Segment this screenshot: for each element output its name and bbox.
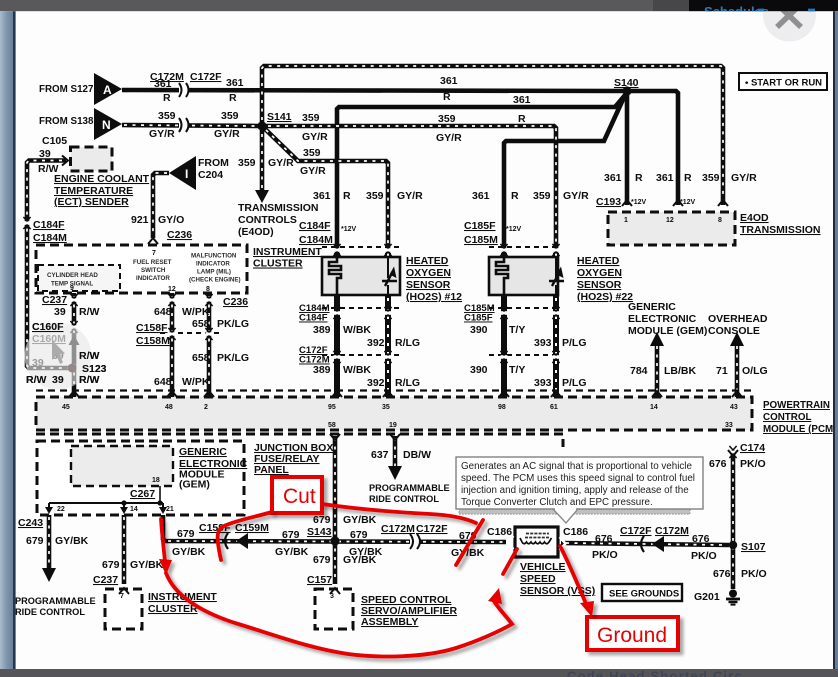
svg-text:7: 7 <box>152 250 156 257</box>
svg-text:GY/BK: GY/BK <box>343 554 377 566</box>
svg-text:393: 393 <box>534 337 552 349</box>
svg-text:(GEM): (GEM) <box>179 479 210 491</box>
svg-text:58: 58 <box>328 422 336 429</box>
svg-text:SENSOR: SENSOR <box>406 279 451 291</box>
svg-text:C185F: C185F <box>464 220 496 232</box>
svg-text:MODULE (GEM): MODULE (GEM) <box>628 325 707 337</box>
svg-text:C184M: C184M <box>33 232 67 244</box>
svg-text:C237: C237 <box>93 574 118 586</box>
svg-text:8: 8 <box>718 217 722 224</box>
svg-text:43: 43 <box>730 404 738 411</box>
svg-text:R: R <box>518 113 526 125</box>
svg-text:TEMP SIGNAL: TEMP SIGNAL <box>51 281 93 288</box>
svg-text:12: 12 <box>666 217 674 224</box>
svg-text:P/LG: P/LG <box>562 337 587 349</box>
svg-text:C184F: C184F <box>299 313 328 324</box>
svg-text:14: 14 <box>650 404 658 411</box>
svg-text:39: 39 <box>54 306 66 318</box>
svg-text:C174: C174 <box>740 442 765 454</box>
svg-text:P/LG: P/LG <box>562 377 587 389</box>
svg-text:GY/BK: GY/BK <box>343 514 377 526</box>
svg-text:637: 637 <box>371 449 389 461</box>
svg-text:LAMP (MIL): LAMP (MIL) <box>197 269 231 276</box>
svg-text:R/W: R/W <box>79 306 100 318</box>
svg-text:35: 35 <box>382 404 390 411</box>
svg-text:359: 359 <box>366 190 384 202</box>
svg-text:T/Y: T/Y <box>509 364 525 376</box>
svg-text:C172F: C172F <box>190 71 222 83</box>
svg-text:C184M: C184M <box>299 234 333 246</box>
svg-text:W/BK: W/BK <box>343 364 371 376</box>
svg-text:GY/BK: GY/BK <box>130 559 164 571</box>
svg-text:PK/O: PK/O <box>691 550 717 562</box>
svg-text:CONTROL: CONTROL <box>763 412 811 423</box>
svg-text:359: 359 <box>702 172 720 184</box>
svg-text:C105: C105 <box>42 135 67 147</box>
svg-text:S140: S140 <box>614 77 639 89</box>
svg-text:N: N <box>102 118 111 132</box>
svg-text:C160F: C160F <box>32 321 64 333</box>
svg-text:95: 95 <box>328 404 336 411</box>
svg-text:359: 359 <box>438 113 456 125</box>
svg-text:(HO2S) #12: (HO2S) #12 <box>406 291 462 303</box>
svg-text:R: R <box>163 92 171 104</box>
svg-text:C185F: C185F <box>464 313 493 324</box>
svg-text:C158F: C158F <box>136 322 168 334</box>
svg-text:R: R <box>511 190 519 202</box>
svg-text:C172M: C172M <box>655 525 689 537</box>
svg-text:C184F: C184F <box>299 220 331 232</box>
svg-text:GY/BK: GY/BK <box>55 535 89 547</box>
svg-text:FUEL RESET: FUEL RESET <box>133 259 172 266</box>
svg-text:GY/R: GY/R <box>302 131 328 143</box>
svg-text:PANEL: PANEL <box>254 464 289 476</box>
svg-text:CLUSTER: CLUSTER <box>148 603 198 615</box>
svg-text:393: 393 <box>534 377 552 389</box>
svg-text:389: 389 <box>313 364 331 376</box>
svg-text:• START OR RUN: • START OR RUN <box>745 78 822 89</box>
svg-text:GY/R: GY/R <box>149 128 175 140</box>
svg-text:392: 392 <box>367 377 385 389</box>
svg-text:359: 359 <box>238 157 256 169</box>
svg-text:R/W: R/W <box>79 374 100 386</box>
svg-text:R/W: R/W <box>26 374 47 386</box>
svg-text:18: 18 <box>152 477 160 484</box>
svg-text:921: 921 <box>131 214 149 226</box>
svg-text:C267: C267 <box>130 488 155 500</box>
svg-text:R: R <box>684 172 692 184</box>
svg-text:C186: C186 <box>487 526 512 538</box>
svg-text:T/Y: T/Y <box>509 324 525 336</box>
svg-text:DB/W: DB/W <box>403 449 431 461</box>
svg-text:HEATED: HEATED <box>406 255 449 267</box>
svg-text:GY/R: GY/R <box>731 172 757 184</box>
svg-text:C243: C243 <box>18 517 43 529</box>
svg-text:C172M: C172M <box>150 71 184 83</box>
svg-text:PK/O: PK/O <box>592 549 618 561</box>
svg-text:679: 679 <box>313 514 331 526</box>
svg-text:359: 359 <box>221 110 239 122</box>
svg-text:R: R <box>343 190 351 202</box>
svg-text:(HO2S) #22: (HO2S) #22 <box>577 291 633 303</box>
svg-text:C159M: C159M <box>235 522 269 534</box>
svg-text:676: 676 <box>692 533 710 545</box>
svg-text:FROM S138: FROM S138 <box>39 116 94 127</box>
svg-text:Code Head Shorted Circ: Code Head Shorted Circ <box>567 669 743 677</box>
svg-text:676: 676 <box>595 533 613 545</box>
svg-text:FROM: FROM <box>198 157 229 169</box>
svg-text:C237: C237 <box>42 294 67 306</box>
svg-text:MODULE (PCM): MODULE (PCM) <box>763 424 836 435</box>
svg-text:361: 361 <box>440 75 458 87</box>
svg-text:C184F: C184F <box>33 219 65 231</box>
svg-text:CONSOLE: CONSOLE <box>708 325 760 337</box>
svg-text:676: 676 <box>713 568 731 580</box>
svg-text:8: 8 <box>206 286 210 293</box>
svg-text:S141: S141 <box>267 111 292 123</box>
svg-text:RIDE CONTROL: RIDE CONTROL <box>15 607 85 617</box>
svg-text:GY/R: GY/R <box>563 190 589 202</box>
svg-text:TRANSMISSION: TRANSMISSION <box>740 224 821 236</box>
svg-text:GENERIC: GENERIC <box>179 446 227 458</box>
svg-text:GENERIC: GENERIC <box>628 301 676 313</box>
svg-text:3: 3 <box>330 593 334 600</box>
svg-text:CYLINDER HEAD: CYLINDER HEAD <box>47 272 98 279</box>
svg-text:33: 33 <box>725 422 733 429</box>
svg-text:A: A <box>103 83 112 97</box>
svg-text:R/LG: R/LG <box>395 377 420 389</box>
svg-text:R: R <box>443 91 451 103</box>
svg-text:679: 679 <box>282 529 300 541</box>
svg-text:C236: C236 <box>223 296 248 308</box>
svg-text:GY/BK: GY/BK <box>172 546 206 558</box>
svg-text:*12V: *12V <box>506 226 522 233</box>
svg-text:PK/LG: PK/LG <box>217 318 249 330</box>
svg-text:PROGRAMMABLE: PROGRAMMABLE <box>15 596 96 606</box>
svg-text:I: I <box>185 167 188 181</box>
svg-text:INDICATOR: INDICATOR <box>196 261 230 268</box>
svg-text:22: 22 <box>57 506 65 513</box>
svg-text:W/PK: W/PK <box>182 306 210 318</box>
svg-text:C185M: C185M <box>464 234 498 246</box>
svg-text:679: 679 <box>177 528 195 540</box>
svg-text:784: 784 <box>630 365 648 377</box>
svg-text:*12V: *12V <box>341 226 357 233</box>
svg-text:679: 679 <box>102 559 120 571</box>
svg-text:1: 1 <box>624 217 628 224</box>
svg-text:SWITCH: SWITCH <box>141 267 166 274</box>
svg-text:C204: C204 <box>198 169 223 181</box>
svg-text:HEATED: HEATED <box>577 255 620 267</box>
svg-text:GY/R: GY/R <box>268 157 294 169</box>
svg-text:W/BK: W/BK <box>343 324 371 336</box>
svg-text:679: 679 <box>26 535 44 547</box>
svg-text:POWERTRAIN: POWERTRAIN <box>763 400 830 411</box>
svg-text:Ground: Ground <box>597 624 667 647</box>
svg-text:389: 389 <box>313 324 331 336</box>
svg-text:SPEED: SPEED <box>520 573 556 585</box>
svg-text:2: 2 <box>204 404 208 411</box>
svg-text:679: 679 <box>350 529 368 541</box>
svg-text:361: 361 <box>513 94 531 106</box>
svg-text:359: 359 <box>303 147 321 159</box>
svg-text:(E4OD): (E4OD) <box>238 226 274 238</box>
svg-text:12: 12 <box>168 286 176 293</box>
svg-text:648: 648 <box>154 376 172 388</box>
svg-text:speed. The PCM uses this speed: speed. The PCM uses this speed signal to… <box>461 473 695 484</box>
svg-text:E4OD: E4OD <box>740 212 769 224</box>
svg-text:Generates an AC signal that is: Generates an AC signal that is proportio… <box>461 461 692 472</box>
svg-text:CLUSTER: CLUSTER <box>253 258 303 270</box>
svg-text:361: 361 <box>313 190 331 202</box>
svg-text:658: 658 <box>192 318 210 330</box>
svg-text:VEHICLE: VEHICLE <box>520 561 566 573</box>
svg-text:SENSOR: SENSOR <box>577 279 622 291</box>
svg-text:G201: G201 <box>694 591 720 603</box>
svg-text:S143: S143 <box>307 526 332 538</box>
svg-text:39: 39 <box>32 357 44 369</box>
svg-text:48: 48 <box>165 404 173 411</box>
svg-text:Torque Converter Clutch and EP: Torque Converter Clutch and EPC pressure… <box>461 497 653 508</box>
svg-text:390: 390 <box>470 364 488 376</box>
svg-text:LB/BK: LB/BK <box>664 365 696 377</box>
svg-text:361: 361 <box>656 172 674 184</box>
svg-text:O/LG: O/LG <box>742 365 768 377</box>
svg-text:7: 7 <box>120 593 124 600</box>
svg-text:39: 39 <box>52 374 64 386</box>
svg-text:GY/O: GY/O <box>158 214 184 226</box>
svg-text:SEE GROUNDS: SEE GROUNDS <box>609 589 679 600</box>
svg-text:ENGINE COOLANT: ENGINE COOLANT <box>54 173 150 185</box>
svg-text:GY/BK: GY/BK <box>275 546 309 558</box>
svg-text:GY/R: GY/R <box>397 190 423 202</box>
svg-text:390: 390 <box>470 324 488 336</box>
svg-text:45: 45 <box>62 404 70 411</box>
svg-text:GY/R: GY/R <box>300 165 326 177</box>
svg-text:359: 359 <box>533 190 551 202</box>
svg-text:ELECTRONIC: ELECTRONIC <box>628 313 697 325</box>
svg-text:PK/O: PK/O <box>741 568 767 580</box>
svg-text:361: 361 <box>226 77 244 89</box>
svg-text:GY/R: GY/R <box>436 132 462 144</box>
svg-text:R/W: R/W <box>79 350 100 362</box>
svg-text:OXYGEN: OXYGEN <box>406 267 451 279</box>
svg-text:*12V: *12V <box>631 199 647 206</box>
svg-text:658: 658 <box>192 352 210 364</box>
svg-text:(CHECK ENGINE): (CHECK ENGINE) <box>189 277 241 284</box>
svg-text:C158M: C158M <box>136 335 170 347</box>
svg-text:(ECT) SENDER: (ECT) SENDER <box>54 196 129 208</box>
svg-text:C236: C236 <box>167 229 192 241</box>
svg-text:C193: C193 <box>596 196 621 208</box>
svg-text:392: 392 <box>367 337 385 349</box>
svg-text:C172F: C172F <box>416 523 448 535</box>
svg-text:98: 98 <box>498 404 506 411</box>
svg-text:21: 21 <box>166 506 174 513</box>
svg-text:PROGRAMMABLE: PROGRAMMABLE <box>369 483 450 493</box>
svg-text:injection and ignition timing,: injection and ignition timing, apply and… <box>461 485 689 496</box>
svg-text:361: 361 <box>604 172 622 184</box>
svg-text:R/LG: R/LG <box>395 337 420 349</box>
svg-text:676: 676 <box>709 458 727 470</box>
svg-text:FROM S127: FROM S127 <box>39 84 94 95</box>
svg-text:MALFUNCTION: MALFUNCTION <box>191 253 237 260</box>
svg-text:C172M: C172M <box>381 523 415 535</box>
svg-text:*12V: *12V <box>680 199 696 206</box>
svg-text:GY/R: GY/R <box>214 128 240 140</box>
svg-text:OXYGEN: OXYGEN <box>577 267 622 279</box>
svg-text:359: 359 <box>302 112 320 124</box>
svg-text:ASSEMBLY: ASSEMBLY <box>361 616 418 628</box>
svg-text:39: 39 <box>39 148 51 160</box>
svg-text:C157: C157 <box>307 574 332 586</box>
svg-text:359: 359 <box>158 110 176 122</box>
svg-text:C172F: C172F <box>620 525 652 537</box>
svg-text:361: 361 <box>472 190 490 202</box>
svg-text:C160M: C160M <box>32 333 66 345</box>
svg-text:W/PK: W/PK <box>182 376 210 388</box>
svg-text:C186: C186 <box>563 526 588 538</box>
svg-text:TRANSMISSION: TRANSMISSION <box>238 202 319 214</box>
svg-text:INDICATOR: INDICATOR <box>136 275 170 282</box>
svg-text:RIDE CONTROL: RIDE CONTROL <box>369 494 439 504</box>
svg-text:61: 61 <box>550 404 558 411</box>
svg-text:PK/LG: PK/LG <box>217 352 249 364</box>
svg-text:679: 679 <box>313 554 331 566</box>
svg-text:648: 648 <box>154 306 172 318</box>
svg-text:19: 19 <box>389 422 397 429</box>
svg-text:S107: S107 <box>741 541 766 553</box>
svg-text:Cut: Cut <box>283 485 316 508</box>
svg-text:71: 71 <box>716 365 728 377</box>
svg-text:R: R <box>229 92 237 104</box>
svg-text:PK/O: PK/O <box>740 458 766 470</box>
svg-text:CONTROLS: CONTROLS <box>238 214 297 226</box>
svg-text:INSTRUMENT: INSTRUMENT <box>253 246 322 258</box>
svg-text:R: R <box>635 172 643 184</box>
svg-text:OVERHEAD: OVERHEAD <box>708 313 768 325</box>
svg-text:14: 14 <box>130 506 138 513</box>
